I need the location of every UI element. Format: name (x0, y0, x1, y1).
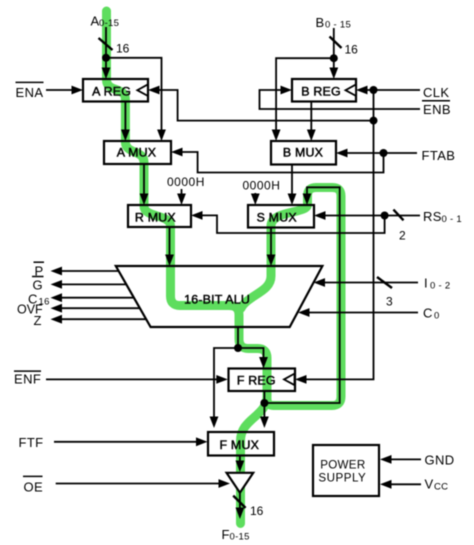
bus slash B (330, 37, 342, 49)
svg-text:POWER: POWER (320, 459, 365, 472)
wire A bypass to A MUX (106, 58, 162, 131)
wire ENF to F REG (46, 378, 218, 380)
label VCC (425, 477, 449, 493)
mux B MUX (271, 141, 336, 165)
arrow ENA into A REG (72, 86, 84, 95)
arrow FTAB into A MUX (171, 148, 183, 157)
wire 0000H constant to R MUX (181, 189, 183, 195)
svg-text:0-15: 0-15 (99, 18, 119, 29)
mux R MUX (128, 205, 191, 227)
arrow 0000H into R MUX (177, 194, 186, 206)
svg-text:0000H: 0000H (167, 175, 205, 189)
svg-text:SUPPLY: SUPPLY (318, 472, 366, 485)
wire A REG to A MUX (124, 102, 126, 132)
wire S MUX to ALU (270, 228, 272, 257)
wire RS0-1 to S MUX (324, 215, 420, 217)
wire G flag output (61, 283, 126, 285)
wire CLK branch to A REG clock (158, 90, 374, 121)
svg-text:F MUX: F MUX (220, 438, 260, 452)
mux S MUX (248, 205, 314, 228)
svg-text:ENF: ENF (14, 372, 41, 387)
svg-text:ENA: ENA (16, 85, 44, 100)
node F REG output junction (260, 399, 268, 407)
wire F MUX to output buffer (239, 456, 241, 462)
wire CLK vertical down to F REG clock (305, 90, 374, 379)
wire A bus input (105, 27, 107, 70)
svg-text:G: G (33, 278, 44, 293)
output buffer (3-state) (227, 473, 254, 493)
label RS0-1 (423, 209, 462, 225)
node A bus junction (102, 54, 110, 62)
wire GND to power supply (390, 458, 421, 460)
svg-text:GND: GND (425, 453, 455, 468)
highlighted data path A input through ALU to F output (green) (107, 11, 268, 524)
wire R MUX to ALU (169, 227, 171, 256)
wire ALU output (237, 327, 239, 348)
label OE with overline (23, 476, 43, 494)
arrow VCC into power supply (380, 480, 392, 489)
wire B bypass to B MUX (276, 58, 334, 131)
svg-text:R MUX: R MUX (135, 210, 176, 224)
wire FTF to F MUX (54, 441, 198, 443)
ALU 16-BIT ALU trapezoid (116, 266, 323, 327)
arrow ENB into B REG (281, 86, 293, 95)
arrow A REG out into A MUX (121, 130, 130, 142)
wire ENB to B REG enable (260, 90, 421, 109)
svg-text:A REG: A REG (92, 85, 131, 99)
arrow ENF into F REG (216, 375, 228, 384)
wire B MUX to S MUX (291, 165, 293, 196)
wire OVF flag output (61, 307, 140, 309)
arrow G flag out (51, 280, 63, 289)
svg-text:3: 3 (386, 295, 393, 309)
node CLK branch junction (370, 117, 378, 125)
wire RS branch to R MUX (201, 215, 385, 233)
arrow B REG out into B MUX (307, 130, 316, 142)
arrow B bus into B REG (329, 68, 338, 80)
wire output buffer to F0-15 (239, 493, 241, 509)
register F REG (229, 369, 296, 392)
arrow S MUX out into ALU (267, 255, 276, 267)
wire A MUX to R MUX (143, 164, 145, 195)
wire ENA to A REG (46, 89, 73, 91)
wire FTAB branch to A MUX (181, 152, 384, 173)
arrow CLK into F REG clock (295, 375, 307, 384)
register B REG (292, 79, 356, 102)
arrow Z flag out (51, 315, 63, 324)
svg-text:FTF: FTF (19, 435, 44, 450)
arrow GND into power supply (380, 455, 392, 464)
arrow FTF into F MUX (196, 437, 208, 446)
arrow F REG out into F MUX (260, 417, 269, 429)
label ENA with overline (16, 82, 44, 100)
label A0-15 (91, 14, 120, 30)
svg-text:S MUX: S MUX (257, 210, 297, 224)
arrow A MUX out into R MUX (140, 194, 149, 206)
wire B bus input (333, 28, 335, 70)
svg-text:F REG: F REG (237, 374, 276, 388)
node FTAB junction (380, 149, 388, 157)
wire VCC to power supply (390, 483, 421, 485)
svg-text:B REG: B REG (301, 85, 341, 99)
wire C16 flag output (61, 297, 134, 299)
arrow OE into buffer (219, 479, 231, 488)
bus slash RS (393, 210, 403, 221)
wire 0000H constant to S MUX (254, 193, 256, 195)
arrow ALU out into F REG (259, 357, 268, 369)
svg-text:B MUX: B MUX (283, 145, 323, 159)
power supply box (313, 445, 379, 496)
ARROWHEADS (51, 68, 392, 520)
arrow B MUX out into S MUX (288, 194, 297, 206)
svg-text:16: 16 (345, 43, 359, 57)
label B0-15 (316, 15, 352, 31)
svg-text:CLK: CLK (423, 85, 450, 100)
svg-text:I: I (424, 276, 428, 291)
svg-text:0: 0 (434, 311, 440, 322)
wire ALU output to F REG (238, 348, 264, 359)
arrow F MUX out into buffer (236, 461, 245, 473)
label ENB with overline (422, 101, 451, 117)
label P flag with overline (34, 262, 45, 278)
bus slash F output (233, 496, 245, 508)
wire F REG output (263, 391, 265, 403)
node B bus junction (330, 54, 338, 62)
svg-text:FTAB: FTAB (422, 148, 456, 163)
highlighted feedback path F REG to S MUX and through ALU (green) (241, 188, 341, 406)
arrow I0-2 into ALU (314, 278, 326, 287)
svg-text:A MUX: A MUX (117, 145, 157, 159)
register A REG (83, 79, 148, 102)
svg-text:16: 16 (250, 504, 264, 518)
svg-text:V: V (425, 477, 434, 492)
wire F REG output to F MUX (263, 403, 265, 418)
arrow RS into S MUX (314, 211, 326, 220)
wire FTAB to B MUX (346, 152, 417, 154)
arrow P flag out (51, 267, 63, 276)
label ENF with overline (14, 371, 41, 386)
arrow F output (236, 508, 245, 520)
arrow C0 into ALU (298, 308, 310, 317)
arrow A bypass into A MUX (157, 130, 166, 142)
wire P flag output (61, 270, 119, 272)
node CLK junction (370, 86, 378, 94)
arrow C16 flag out (51, 293, 63, 302)
arrow R MUX out into ALU (165, 255, 174, 267)
svg-text:0 - 15: 0 - 15 (325, 20, 351, 31)
arrow RS into R MUX (191, 211, 203, 220)
wire CLK to B REG clock (366, 89, 420, 91)
wire B REG to B MUX (310, 102, 312, 132)
label C16 flag (28, 292, 50, 308)
svg-text:OE: OE (24, 480, 44, 495)
svg-text:0 - 2: 0 - 2 (430, 281, 451, 292)
svg-text:B: B (316, 15, 325, 30)
svg-text:ENB: ENB (423, 102, 451, 117)
wire OE to output buffer (56, 483, 220, 485)
arrow B bypass into B MUX (272, 130, 281, 142)
arrow 0000H into S MUX (251, 194, 260, 206)
wire C0 to ALU (308, 312, 418, 314)
mux A MUX (104, 141, 171, 164)
bus slash A (99, 38, 113, 50)
svg-text:RS: RS (423, 209, 442, 224)
label F0-15 (222, 527, 250, 543)
wire ALU bypass to F MUX (214, 348, 238, 418)
svg-text:2: 2 (399, 229, 406, 243)
wire Z flag output (61, 318, 146, 320)
arrow A bus into A REG (102, 68, 111, 80)
wire F REG feedback to S MUX (264, 187, 339, 403)
arrow feedback into S MUX (303, 194, 312, 206)
svg-text:0 - 1: 0 - 1 (442, 214, 463, 225)
arrow CLK into B REG clock (356, 86, 368, 95)
label G flag with overline (32, 277, 44, 293)
label C0 (423, 306, 440, 322)
mux F MUX (208, 432, 274, 456)
arrow CLK into A REG clock (148, 86, 160, 95)
arrow FTAB into B MUX (336, 149, 348, 158)
arrow ALU bypass into F MUX (210, 417, 219, 429)
bus slash I (377, 277, 392, 288)
svg-text:0-15: 0-15 (230, 532, 250, 543)
svg-text:Z: Z (34, 313, 42, 328)
wire I0-2 to ALU (324, 282, 418, 284)
svg-text:0000H: 0000H (243, 179, 281, 193)
svg-text:CC: CC (434, 482, 448, 493)
node RS junction (381, 212, 389, 220)
svg-text:16: 16 (116, 42, 130, 56)
svg-text:16-BIT ALU: 16-BIT ALU (184, 293, 250, 307)
svg-text:C: C (423, 306, 433, 321)
node ALU output junction (234, 344, 242, 352)
label I0-2 (424, 276, 451, 292)
arrow OVF flag out (51, 304, 63, 313)
